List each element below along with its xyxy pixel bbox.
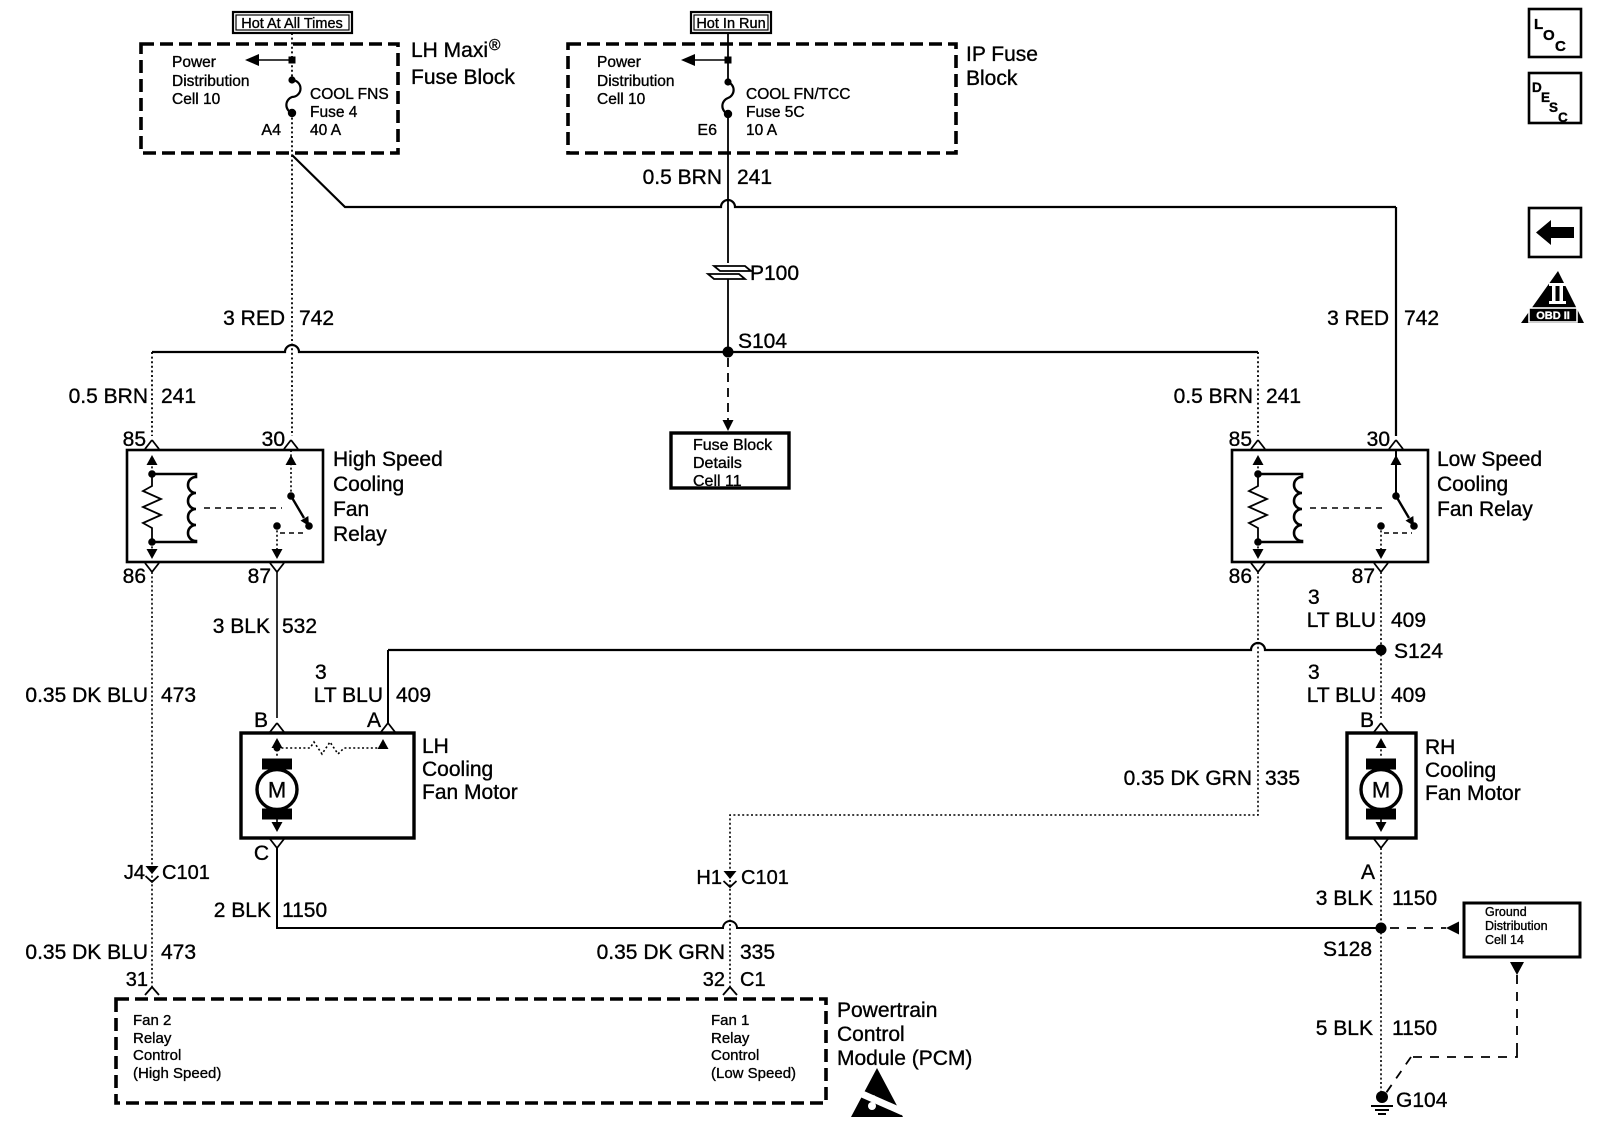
svg-text:409: 409 [396, 684, 431, 707]
svg-text:Powertrain: Powertrain [837, 999, 937, 1022]
svg-text:Distribution: Distribution [597, 73, 675, 90]
svg-text:S: S [1549, 100, 1558, 115]
svg-text:Control: Control [711, 1047, 759, 1064]
svg-text:3 RED: 3 RED [1327, 307, 1389, 330]
svg-text:Power: Power [597, 54, 641, 71]
icon back arrow [1529, 208, 1581, 257]
svg-text:A4: A4 [261, 122, 281, 139]
label 0.5 BRN 241 (right) [1174, 385, 1301, 408]
icon OBD II [1521, 271, 1584, 323]
wire 3 BLK 532 from K1 87 to M1 B [276, 572, 278, 718]
label Fan 2 Relay Control (High Speed) [133, 1012, 221, 1082]
fuse block LH Maxi dashed box [141, 44, 398, 153]
svg-text:0.5 BRN: 0.5 BRN [69, 385, 148, 408]
wire 3 BLK 1150 from M2 A to S128 [1380, 848, 1382, 928]
svg-text:85: 85 [123, 428, 146, 451]
motor M2 RH Cooling Fan Motor [1347, 709, 1416, 884]
reference arrow S128 to Ground Distribution [1390, 922, 1459, 935]
label LH Maxi Fuse Block [411, 37, 515, 89]
wire 3 LT BLU 409 from S124 to M2 B [1380, 650, 1382, 718]
label 0.35 DK BLU 473 (upper) [25, 684, 196, 707]
svg-text:OBD II: OBD II [1536, 310, 1570, 322]
svg-text:3: 3 [315, 661, 327, 684]
svg-text:85: 85 [1229, 428, 1252, 451]
svg-text:J4: J4 [124, 862, 145, 884]
label IP Fuse Block [966, 43, 1038, 90]
module PCM dashed box [116, 999, 826, 1103]
svg-text:Fan 2: Fan 2 [133, 1012, 171, 1029]
svg-text:Hot At All Times: Hot At All Times [241, 16, 343, 32]
label 3 LT BLU 409 (right upper) [1307, 586, 1426, 632]
svg-text:Fuse 5C: Fuse 5C [746, 104, 805, 121]
wire 0.5 BRN left drop to K1 pin 85 [151, 352, 153, 436]
svg-text:0.35 DK GRN: 0.35 DK GRN [597, 941, 725, 964]
svg-text:3: 3 [1308, 661, 1320, 684]
svg-text:Cell 10: Cell 10 [597, 91, 646, 108]
svg-text:Cooling: Cooling [1437, 473, 1508, 496]
svg-text:LT BLU: LT BLU [1307, 684, 1376, 707]
svg-text:A: A [1361, 861, 1375, 884]
icon ESD warning triangle [851, 1068, 903, 1117]
svg-text:C: C [1555, 38, 1566, 55]
label Power Distribution Cell 10 (IP) [597, 54, 675, 108]
wire from Hot In Run to fuse E6 [727, 33, 729, 82]
svg-text:LH: LH [422, 735, 449, 758]
svg-text:241: 241 [737, 166, 772, 189]
svg-text:1150: 1150 [1392, 1017, 1437, 1040]
wire 0.5 BRN 241 from fuse E6 down to P100 [727, 114, 729, 263]
label LH Cooling Fan Motor [422, 735, 518, 804]
svg-text:B: B [254, 709, 268, 732]
svg-text:RH: RH [1425, 736, 1455, 759]
svg-text:O: O [1543, 27, 1555, 44]
svg-text:Cell 14: Cell 14 [1485, 933, 1524, 947]
svg-text:Power: Power [172, 54, 216, 71]
svg-text:0.35 DK BLU: 0.35 DK BLU [25, 941, 148, 964]
splice S128 [1323, 923, 1387, 962]
svg-text:E6: E6 [697, 122, 717, 139]
fuse F4 COOL FNS [286, 76, 300, 117]
svg-text:Cooling: Cooling [333, 473, 404, 496]
svg-text:COOL FN/TCC: COOL FN/TCC [746, 86, 850, 103]
label Low Speed Cooling Fan Relay [1437, 448, 1542, 521]
svg-text:C101: C101 [162, 862, 210, 884]
svg-text:C1: C1 [740, 969, 766, 991]
svg-text:Cooling: Cooling [422, 758, 493, 781]
fuse block IP dashed box [568, 44, 956, 153]
svg-text:Relay: Relay [133, 1030, 172, 1047]
wire 3 LT BLU 409 from K2 87 down to S124 [1380, 572, 1382, 650]
svg-text:Fuse Block: Fuse Block [693, 437, 773, 454]
label 0.35 DK GRN 335 (lower) [597, 941, 775, 964]
label RH Cooling Fan Motor [1425, 736, 1521, 805]
svg-text:C: C [254, 842, 269, 865]
svg-text:2 BLK: 2 BLK [214, 899, 271, 922]
label 2 BLK 1150 [214, 899, 327, 922]
relay K2 Low Speed Cooling Fan Relay [1229, 428, 1428, 588]
wire 5 BLK 1150 from S128 to G104 [1380, 928, 1382, 1094]
svg-text:LT BLU: LT BLU [314, 684, 383, 707]
wire 0.5 BRN right drop to K2 pin 85 [1257, 352, 1259, 436]
svg-text:Cell 11: Cell 11 [693, 473, 742, 490]
svg-text:S128: S128 [1323, 938, 1372, 961]
svg-text:87: 87 [248, 565, 271, 588]
pin 31 PCM [126, 969, 159, 995]
svg-text:G104: G104 [1396, 1089, 1448, 1112]
svg-text:30: 30 [262, 428, 285, 451]
label High Speed Cooling Fan Relay [333, 448, 443, 546]
wire bus 0.5 BRN (second horizontal) [152, 345, 1258, 352]
svg-text:S104: S104 [738, 330, 787, 353]
wire 3 LT BLU 409 from M1 A up to bus [387, 650, 389, 723]
svg-text:409: 409 [1391, 684, 1426, 707]
icon DESC [1529, 73, 1581, 125]
svg-text:5 BLK: 5 BLK [1316, 1017, 1373, 1040]
label Powertrain Control Module (PCM) [837, 999, 972, 1070]
wire 0.35 DK GRN 335 from K2 86 to PCM 32 [730, 572, 1258, 987]
svg-text:Control: Control [837, 1023, 905, 1046]
wire 3 RED 742 right drop to relay K2 pin 30 [1395, 207, 1397, 436]
svg-text:Cell 10: Cell 10 [172, 91, 221, 108]
svg-text:0.35 DK GRN: 0.35 DK GRN [1124, 767, 1252, 790]
label 3 RED 742 (right) [1327, 307, 1439, 330]
svg-text:Relay: Relay [333, 523, 387, 546]
svg-text:335: 335 [740, 941, 775, 964]
svg-text:H1: H1 [696, 867, 722, 889]
label 0.5 BRN 241 (top center) [643, 166, 772, 189]
svg-text:3: 3 [1308, 586, 1320, 609]
fuse E6 COOL FN/TCC [722, 78, 733, 118]
svg-text:742: 742 [1404, 307, 1439, 330]
svg-text:®: ® [489, 37, 501, 54]
svg-text:742: 742 [299, 307, 334, 330]
power label Hot At All Times [233, 12, 352, 33]
svg-text:Low Speed: Low Speed [1437, 448, 1542, 471]
svg-text:Hot In Run: Hot In Run [696, 16, 765, 32]
svg-text:0.5 BRN: 0.5 BRN [643, 166, 722, 189]
svg-text:High Speed: High Speed [333, 448, 443, 471]
wire 3 RED 742 diagonal feed and top bus [292, 155, 1396, 207]
svg-text:40 A: 40 A [310, 122, 342, 139]
label COOL FN/TCC Fuse 5C 10 A [746, 86, 850, 139]
svg-text:Fan Relay: Fan Relay [1437, 498, 1533, 521]
svg-text:86: 86 [123, 565, 146, 588]
wire P100 to S104 [727, 279, 729, 352]
wire bus 3 LT BLU 409 to S124 [388, 643, 1381, 650]
svg-text:1150: 1150 [282, 899, 327, 922]
wire 0.35 DK BLU 473 from K1 86 to PCM 31 [151, 572, 153, 987]
svg-text:241: 241 [161, 385, 196, 408]
label 3 LT BLU 409 (right lower) [1307, 661, 1426, 707]
svg-text:86: 86 [1229, 565, 1252, 588]
svg-text:Fan 1: Fan 1 [711, 1012, 749, 1029]
box Fuse Block Details Cell 11 [671, 433, 789, 490]
connector C101 J4 [124, 862, 210, 884]
connector P100 [708, 262, 799, 285]
svg-text:Fan Motor: Fan Motor [422, 781, 518, 804]
svg-text:M: M [1372, 778, 1390, 803]
svg-text:532: 532 [282, 615, 317, 638]
arrow to Power Distribution (LH) [245, 54, 296, 66]
svg-text:Control: Control [133, 1047, 181, 1064]
svg-text:C: C [1558, 110, 1568, 125]
svg-text:87: 87 [1352, 565, 1375, 588]
label 3 RED 742 (left) [223, 307, 334, 330]
svg-text:Relay: Relay [711, 1030, 750, 1047]
svg-text:COOL FNS: COOL FNS [310, 86, 389, 103]
relay K1 High Speed Cooling Fan Relay [123, 428, 323, 588]
svg-text:Fuse 4: Fuse 4 [310, 104, 358, 121]
svg-text:B: B [1360, 709, 1374, 732]
splice S124 [1376, 640, 1444, 663]
svg-text:LT BLU: LT BLU [1307, 609, 1376, 632]
svg-text:473: 473 [161, 941, 196, 964]
svg-text:Details: Details [693, 455, 742, 472]
ground G104 [1371, 1089, 1448, 1114]
label 3 BLK 1150 [1316, 887, 1437, 910]
icon LOC [1529, 9, 1581, 57]
svg-text:P100: P100 [750, 262, 799, 285]
svg-text:Distribution: Distribution [172, 73, 250, 90]
svg-text:Ground: Ground [1485, 905, 1527, 919]
svg-text:1150: 1150 [1392, 887, 1437, 910]
label 3 LT BLU 409 (left) [314, 661, 431, 707]
svg-text:473: 473 [161, 684, 196, 707]
motor M1 LH Cooling Fan Motor [241, 709, 414, 865]
svg-text:409: 409 [1391, 609, 1426, 632]
svg-text:3 BLK: 3 BLK [1316, 887, 1373, 910]
wire A4 exit [291, 113, 293, 155]
wire 3 RED 742 dotted drop to relay K1 pin 30 [291, 155, 293, 436]
svg-text:0.35 DK BLU: 0.35 DK BLU [25, 684, 148, 707]
svg-text:3 RED: 3 RED [223, 307, 285, 330]
svg-text:M: M [268, 778, 286, 803]
label 0.35 DK GRN 335 (upper) [1124, 767, 1300, 790]
svg-text:0.5 BRN: 0.5 BRN [1174, 385, 1253, 408]
arrow to Power Distribution (IP) [681, 54, 732, 66]
label COOL FNS Fuse 4 40 A [310, 86, 389, 139]
svg-text:LH Maxi: LH Maxi [411, 39, 488, 62]
svg-text:10 A: 10 A [746, 122, 778, 139]
splice S104 [723, 330, 788, 358]
svg-text:30: 30 [1367, 428, 1390, 451]
svg-text:241: 241 [1266, 385, 1301, 408]
reference arrow S104 to Fuse Block Details [723, 358, 734, 431]
wire 2 BLK 1150 from M1 C to S128 [277, 848, 1381, 928]
box Ground Distribution Cell 14 [1464, 903, 1580, 957]
label Power Distribution Cell 10 (LH) [172, 54, 250, 108]
svg-text:Block: Block [966, 67, 1018, 90]
svg-text:Fuse Block: Fuse Block [411, 66, 515, 89]
svg-text:L: L [1534, 16, 1543, 33]
svg-text:Distribution: Distribution [1485, 919, 1548, 933]
label Fan 1 Relay Control (Low Speed) [711, 1012, 796, 1082]
pin 32 C1 PCM [703, 969, 766, 995]
svg-text:335: 335 [1265, 767, 1300, 790]
svg-text:Fan: Fan [333, 498, 369, 521]
label 0.5 BRN 241 (left) [69, 385, 196, 408]
power label Hot In Run [691, 12, 771, 33]
svg-text:Module (PCM): Module (PCM) [837, 1047, 972, 1070]
svg-text:(High Speed): (High Speed) [133, 1065, 221, 1082]
svg-text:Fan Motor: Fan Motor [1425, 782, 1521, 805]
label 0.35 DK BLU 473 (lower) [25, 941, 196, 964]
wire from Hot At All Times to fuse F4 [291, 33, 293, 80]
label 5 BLK 1150 [1316, 1017, 1437, 1040]
svg-text:32: 32 [703, 969, 725, 991]
connector C101 H1 [696, 867, 788, 889]
svg-text:C101: C101 [741, 867, 789, 889]
svg-text:31: 31 [126, 969, 148, 991]
svg-text:3 BLK: 3 BLK [213, 615, 270, 638]
svg-text:IP Fuse: IP Fuse [966, 43, 1038, 66]
reference path Ground Distribution to G104 [1386, 962, 1524, 1093]
svg-text:A: A [367, 709, 381, 732]
svg-text:Cooling: Cooling [1425, 759, 1496, 782]
svg-text:(Low Speed): (Low Speed) [711, 1065, 796, 1082]
label 3 BLK 532 [213, 615, 317, 638]
svg-text:S124: S124 [1394, 640, 1443, 663]
